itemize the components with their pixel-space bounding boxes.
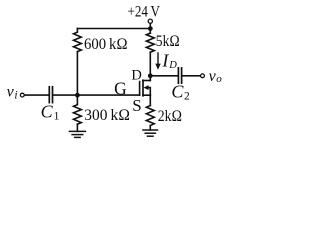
svg-text:2kΩ: 2kΩ — [158, 108, 182, 125]
svg-text:300 kΩ: 300 kΩ — [84, 107, 130, 124]
current arrow ID — [157, 53, 159, 65]
wire drain to C2 — [150, 75, 177, 77]
mosfet Q1 drain lead — [143, 80, 150, 82]
resistor 600k — [74, 29, 82, 52]
svg-text:i: i — [14, 90, 17, 102]
wire C1 to gate plate — [53, 94, 139, 96]
svg-text:2: 2 — [184, 90, 190, 102]
svg-text:I: I — [161, 50, 169, 70]
terminal vi — [20, 93, 24, 97]
ground right — [143, 129, 158, 131]
node G junction — [75, 93, 80, 98]
svg-text:+24 V: +24 V — [128, 3, 161, 20]
capacitor C1 — [48, 87, 50, 103]
node junction top — [148, 26, 153, 31]
resistor 2k — [146, 106, 154, 126]
mosfet Q1 body arrowhead — [143, 85, 148, 90]
terminal +24V — [148, 19, 152, 23]
wire 600k to gate node — [76, 52, 78, 96]
capacitor C2 — [177, 68, 179, 83]
wire gate — [24, 94, 48, 96]
resistor 300k — [74, 95, 82, 124]
svg-text:o: o — [216, 73, 222, 85]
ground left — [69, 130, 85, 132]
svg-text:S: S — [132, 96, 141, 115]
svg-text:5kΩ: 5kΩ — [156, 33, 180, 50]
svg-text:G: G — [114, 79, 127, 99]
wire 300k to ground — [76, 124, 78, 131]
svg-text:D: D — [131, 67, 141, 83]
mosfet Q1 gate plate — [139, 82, 141, 96]
wire 5k to drain — [149, 52, 151, 80]
wire 2k to ground — [149, 126, 151, 131]
svg-text:v: v — [7, 84, 15, 101]
svg-text:C: C — [41, 102, 54, 122]
svg-text:600 kΩ: 600 kΩ — [84, 36, 128, 53]
resistor 5k — [146, 33, 154, 52]
wire source down — [149, 95, 151, 105]
svg-text:C: C — [171, 81, 184, 101]
wire C2 to vo — [183, 75, 201, 77]
mosfet Q1 body arrow wire — [147, 88, 150, 96]
mosfet Q1 source lead — [143, 94, 150, 96]
wire top rail — [77, 28, 150, 30]
wire VDD stub — [149, 24, 151, 34]
svg-text:D: D — [168, 60, 177, 71]
node D — [148, 73, 153, 78]
svg-text:1: 1 — [54, 110, 60, 122]
terminal vo — [201, 74, 205, 78]
mosfet Q1 channel bar — [142, 80, 144, 96]
